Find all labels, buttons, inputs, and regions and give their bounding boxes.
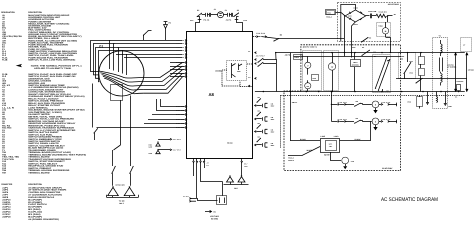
junction xyxy=(351,52,352,53)
resistor box right xyxy=(457,85,461,91)
svg-text:60 HZ ONLY: 60 HZ ONLY xyxy=(382,167,393,170)
wire xyxy=(331,121,337,123)
svg-text:40: 40 xyxy=(369,38,372,40)
wire xyxy=(275,53,277,60)
wire xyxy=(152,114,185,116)
wire xyxy=(207,14,209,16)
dashed box T1 xyxy=(433,38,448,109)
svg-text:(2 WIRE): (2 WIRE) xyxy=(447,67,457,69)
wire xyxy=(198,198,218,201)
switch S4b in 400hz box xyxy=(361,41,362,42)
terminal block TB3 xyxy=(326,10,336,15)
dashed box PWR switch xyxy=(399,53,416,79)
wire xyxy=(240,86,253,88)
terminal block TB1A xyxy=(351,60,361,67)
wire xyxy=(116,54,182,56)
wire xyxy=(279,38,345,40)
svg-text:CONNECTOR: CONNECTOR xyxy=(1,183,13,186)
svg-text:J6 P6: J6 P6 xyxy=(226,20,232,22)
svg-text:(60 HZ ONLY): (60 HZ ONLY) xyxy=(303,45,317,48)
wire xyxy=(193,168,195,176)
wire xyxy=(387,16,389,22)
junction xyxy=(440,52,441,53)
svg-text:B7: B7 xyxy=(374,56,377,58)
varistor RV1 xyxy=(419,57,425,65)
dashed meter box A xyxy=(303,51,322,91)
G1 ground triangle right xyxy=(124,187,135,195)
bridge rectifier CR4 diamond xyxy=(345,10,366,22)
bus wire mid xyxy=(416,78,467,80)
wire xyxy=(419,95,421,97)
dashed box TR1 top right xyxy=(461,38,472,52)
wire xyxy=(130,96,132,167)
svg-text:DESCRIPTION: DESCRIPTION xyxy=(28,11,42,14)
transformer primary coil xyxy=(441,44,442,53)
A8 internal module (1000MW) xyxy=(215,61,247,81)
dashed bus vertical xyxy=(280,95,282,148)
wire xyxy=(307,56,309,62)
capacitor C3 xyxy=(370,14,372,19)
svg-text:B2: B2 xyxy=(387,91,390,93)
wire xyxy=(382,89,384,92)
wire xyxy=(388,15,393,17)
wires G1 to A8 (left wrap bundle) xyxy=(91,41,183,82)
junction xyxy=(331,91,333,93)
wire xyxy=(331,152,342,161)
wire xyxy=(445,92,447,104)
top chain labels xyxy=(197,8,239,12)
wire xyxy=(344,53,346,57)
bus wire N2 (dashed) xyxy=(280,95,464,97)
wire xyxy=(420,53,422,57)
wire xyxy=(92,84,94,128)
svg-text:J18/P18: J18/P18 xyxy=(2,215,11,218)
wire xyxy=(332,53,334,63)
bus wire L1 xyxy=(276,52,465,54)
coil L1 marks xyxy=(437,97,438,103)
wire xyxy=(291,140,321,142)
wire xyxy=(331,92,333,122)
switch S2 xyxy=(197,16,198,17)
dashed meter sub-box xyxy=(377,23,391,37)
wire xyxy=(344,16,347,53)
svg-text:G1: G1 xyxy=(99,45,103,49)
ground xyxy=(426,102,429,104)
ground base line xyxy=(107,197,139,199)
relay K1 blade upper xyxy=(376,58,387,88)
wire xyxy=(157,99,185,111)
wire xyxy=(247,63,253,65)
ground delta pair xyxy=(226,177,233,182)
wire xyxy=(307,80,309,83)
ground delta xyxy=(156,143,160,146)
svg-text:FL2B: FL2B xyxy=(2,58,8,61)
svg-text:A8: A8 xyxy=(209,92,215,97)
wire xyxy=(262,37,279,39)
wire xyxy=(120,100,122,145)
dashed box 60 HZ ONLY xyxy=(284,45,401,171)
terminal arrows xyxy=(189,198,191,200)
wire xyxy=(158,149,170,151)
ground delta xyxy=(156,150,160,153)
wire xyxy=(366,15,370,17)
pin tick xyxy=(235,19,239,21)
ground xyxy=(444,103,447,105)
wire xyxy=(144,123,185,125)
svg-text:S2: S2 xyxy=(197,9,199,12)
G1 brush switch left xyxy=(111,173,112,174)
wire xyxy=(386,38,391,53)
terminal arrow xyxy=(249,85,251,87)
wire xyxy=(196,17,200,32)
bus wire L2 (lower) xyxy=(294,56,401,58)
wire xyxy=(354,67,356,92)
wire xyxy=(336,12,342,14)
bridge diode ticks xyxy=(349,12,362,20)
transformer secondary coil xyxy=(441,74,442,83)
generator G1 xyxy=(99,45,144,97)
ammeter M4 xyxy=(382,28,388,34)
wire xyxy=(345,164,347,166)
svg-text:DESIGNATION: DESIGNATION xyxy=(1,11,15,14)
neutral transformer T2 xyxy=(342,157,349,164)
A8 right switch group lower xyxy=(255,96,275,147)
wire xyxy=(158,139,170,141)
wire xyxy=(223,14,227,16)
switch S4 xyxy=(143,35,144,36)
capacitor C2b xyxy=(231,13,233,17)
svg-text:(HOME): (HOME) xyxy=(352,65,360,67)
G1 brush switch right xyxy=(129,173,130,174)
wire xyxy=(196,168,198,198)
terminal block TB5B xyxy=(312,75,319,81)
dashed box 400 HZ ONLY xyxy=(338,3,401,42)
G1 rotor field box xyxy=(111,85,123,101)
ground xyxy=(343,166,347,169)
switch S3 xyxy=(233,16,234,17)
wire xyxy=(407,53,409,62)
note pointer arrow xyxy=(17,65,21,67)
bus wire mid extension xyxy=(396,78,416,80)
svg-text:AC SCHEMATIC DIAGRAM: AC SCHEMATIC DIAGRAM xyxy=(381,197,438,203)
junction xyxy=(275,52,276,53)
svg-text:400 HZ ONLY: 400 HZ ONLY xyxy=(388,3,400,6)
svg-text:J12: J12 xyxy=(190,20,194,22)
wire (white neutral) xyxy=(288,147,320,156)
dashed relay box K1 xyxy=(373,55,391,93)
battery terminal symbol BT1 xyxy=(164,25,168,29)
pin tick xyxy=(198,19,202,21)
module A8 box xyxy=(187,32,253,159)
wire xyxy=(124,57,182,59)
wire xyxy=(97,127,185,129)
duplex receptacle row 2 xyxy=(338,117,397,131)
svg-text:DESCRIPTION: DESCRIPTION xyxy=(28,183,42,186)
A8 bottom terminal right xyxy=(241,158,243,161)
G1 stator windings xyxy=(99,40,144,94)
wire xyxy=(191,198,197,200)
svg-text:TO A8: TO A8 xyxy=(119,199,125,202)
svg-text:P6: P6 xyxy=(169,22,171,25)
wire xyxy=(331,104,337,106)
wire xyxy=(352,22,356,58)
svg-text:BK2: BK2 xyxy=(234,187,237,190)
legend table xyxy=(1,11,86,221)
svg-text:SWITCH, FLOAT, LOW FUEL WARNIN: SWITCH, FLOAT, LOW FUEL WARNING xyxy=(28,58,76,61)
switch S6 xyxy=(273,40,274,41)
relay K1 blade lower xyxy=(379,60,390,90)
G1 ground triangle left xyxy=(108,187,119,195)
wire xyxy=(191,200,196,202)
bus L1 junction dots xyxy=(331,52,332,53)
wire (dashed) xyxy=(253,36,262,38)
wire xyxy=(372,15,376,17)
junction node xyxy=(387,15,388,16)
resistor R4 zigzag xyxy=(376,14,387,17)
svg-text:S3: S3 xyxy=(237,9,239,12)
capacitor C1a xyxy=(205,13,207,17)
dashed meter box B xyxy=(324,51,339,91)
svg-text:F1: F1 xyxy=(225,9,227,12)
svg-text:P6 J6: P6 J6 xyxy=(204,20,210,22)
potentiometer R1 xyxy=(217,196,227,205)
ground base line xyxy=(224,184,249,186)
switch S5 in box xyxy=(403,73,404,74)
wire xyxy=(222,182,224,193)
svg-text:50 OHM: 50 OHM xyxy=(211,218,218,221)
svg-text:HR: HR xyxy=(307,86,309,88)
wire xyxy=(340,140,371,142)
bus switch S1a xyxy=(361,55,362,56)
switch marks lower-left xyxy=(93,132,94,133)
svg-text:GN-2: GN-2 xyxy=(119,202,124,205)
svg-text:A9 (POWER CONVERTER): A9 (POWER CONVERTER) xyxy=(28,218,59,221)
wire xyxy=(385,22,387,28)
varistor RV2 xyxy=(419,69,425,76)
wire loop from bridge + terminal xyxy=(341,4,356,41)
terminal arrows xyxy=(256,36,258,38)
wire xyxy=(148,119,185,121)
wire xyxy=(165,29,167,41)
voltmeter M1 xyxy=(305,62,311,68)
svg-text:APPLIED TO AN EMPTY TANK: APPLIED TO AN EMPTY TANK xyxy=(34,67,72,70)
hour meter M3 xyxy=(305,83,311,89)
svg-text:RV2: RV2 xyxy=(410,73,414,75)
duplex receptacle row 1 xyxy=(338,100,397,114)
svg-text:P12: P12 xyxy=(244,20,248,22)
wire xyxy=(202,14,206,16)
vertical feed xyxy=(290,53,292,141)
output span line A xyxy=(455,53,457,92)
svg-text:RV1: RV1 xyxy=(410,61,414,63)
A8 right switch group upper xyxy=(248,50,277,92)
A8 left edge pin terminals xyxy=(176,39,187,129)
transformer core xyxy=(439,58,441,72)
wire xyxy=(201,168,223,182)
svg-text:TERMINAL BOARD: TERMINAL BOARD xyxy=(28,171,50,174)
terminal block TB5A xyxy=(294,55,303,60)
wire xyxy=(229,14,231,16)
kilowatt meter M2 xyxy=(328,63,335,70)
A8 bottom terminals left xyxy=(193,158,209,168)
indicator lamp DS1 xyxy=(218,12,224,18)
wires to A8 mid terminals xyxy=(170,63,185,77)
wiper arrow xyxy=(205,210,212,212)
capacitor C2a xyxy=(227,13,229,17)
capacitor C1b xyxy=(209,13,211,17)
svg-text:C1: C1 xyxy=(214,8,216,11)
wire xyxy=(211,14,218,16)
bus wire N1 xyxy=(255,91,465,93)
switch S5b xyxy=(415,82,416,83)
varistor RV3 xyxy=(417,97,423,107)
GFCI box CB2 xyxy=(321,139,340,153)
wire xyxy=(222,70,240,86)
wire xyxy=(161,99,185,107)
svg-text:VOLT ADJ: VOLT ADJ xyxy=(210,215,219,218)
wire xyxy=(148,30,152,32)
wire xyxy=(237,17,243,32)
svg-text:NOTE: THE NORMAL POSITION OF: NOTE: THE NORMAL POSITION OF FL 1 xyxy=(31,64,83,67)
output span line B xyxy=(466,53,468,92)
bus junction dots xyxy=(263,91,265,93)
wires G1 outputs to A8 terminals xyxy=(144,63,183,94)
junction xyxy=(344,52,345,53)
